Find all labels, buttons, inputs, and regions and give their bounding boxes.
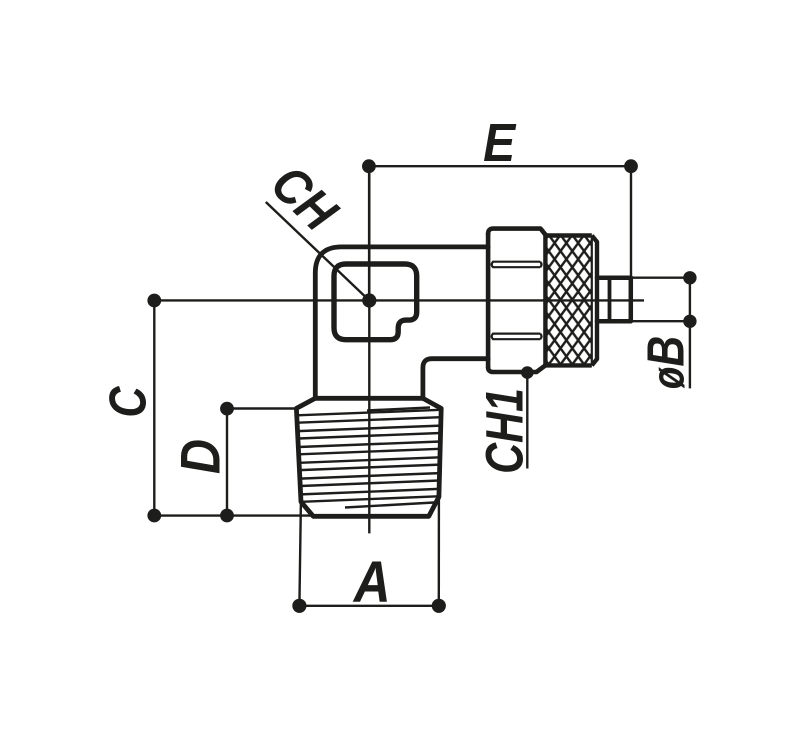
- svg-text:CH1: CH1: [475, 388, 534, 474]
- svg-text:øB: øB: [638, 336, 696, 389]
- svg-text:A: A: [352, 550, 391, 615]
- svg-text:C: C: [100, 385, 158, 418]
- svg-text:D: D: [169, 439, 232, 474]
- svg-text:CH: CH: [260, 155, 348, 243]
- svg-text:E: E: [483, 112, 517, 172]
